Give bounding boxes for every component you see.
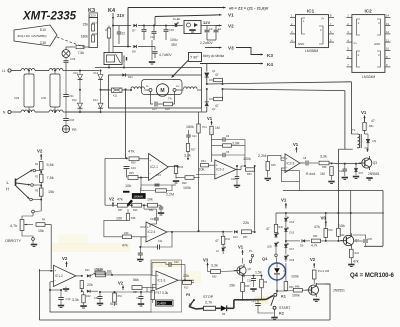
svg-text:2N5551: 2N5551 <box>368 172 380 176</box>
svg-text:M: M <box>160 88 164 94</box>
svg-text:R46: R46 <box>279 226 284 229</box>
svg-text:R60: R60 <box>212 276 217 279</box>
svg-text:P5: P5 <box>186 293 190 297</box>
svg-text:R37: R37 <box>118 209 123 212</box>
svg-text:STOP: STOP <box>203 295 214 299</box>
svg-text:D-LED: D-LED <box>173 18 180 21</box>
svg-text:180k: 180k <box>81 35 89 39</box>
svg-text:3,3k: 3,3k <box>211 264 218 268</box>
svg-text:D10: D10 <box>233 236 238 239</box>
svg-text:R29: R29 <box>124 232 129 235</box>
svg-text:LM358M: LM358M <box>305 49 318 53</box>
svg-text:LED: LED <box>267 246 272 249</box>
svg-text:JDQ1 DC 12V/W8BQ: JDQ1 DC 12V/W8BQ <box>17 34 47 38</box>
svg-text:C35: C35 <box>40 41 46 45</box>
svg-text:V: V <box>283 269 285 273</box>
svg-text:−: − <box>286 166 288 170</box>
svg-text:22k: 22k <box>87 283 93 287</box>
svg-text:2,2M: 2,2M <box>166 193 174 197</box>
svg-text:P17 3,3k: P17 3,3k <box>156 291 169 295</box>
svg-text:47k: 47k <box>128 149 134 154</box>
svg-text:21V: 21V <box>117 13 125 18</box>
svg-text:Q3: Q3 <box>373 161 377 165</box>
svg-text:100k: 100k <box>183 186 191 190</box>
svg-text:R30: R30 <box>131 162 136 165</box>
svg-text:K4: K4 <box>108 8 116 14</box>
svg-text:180k: 180k <box>186 125 194 129</box>
svg-text:14: 14 <box>386 14 390 18</box>
svg-text:4,7k: 4,7k <box>10 224 17 228</box>
svg-text:+: + <box>157 274 159 278</box>
svg-text:IC1-3: IC1-3 <box>158 278 166 282</box>
svg-text:R49: R49 <box>245 285 250 288</box>
svg-text:R13: R13 <box>184 287 189 290</box>
svg-text:D8: D8 <box>132 50 136 54</box>
svg-text:C19: C19 <box>66 297 71 301</box>
svg-text:3,3M: 3,3M <box>232 142 240 146</box>
svg-text:C25: C25 <box>368 238 373 241</box>
svg-text:510k: 510k <box>110 302 118 306</box>
svg-text:D21: D21 <box>85 269 90 272</box>
svg-text:R42: R42 <box>340 234 345 237</box>
svg-text:V2: V2 <box>37 149 43 154</box>
svg-text:11: 11 <box>386 38 389 42</box>
svg-text:R33: R33 <box>243 236 248 239</box>
svg-text:C30: C30 <box>41 96 47 100</box>
svg-text:V3: V3 <box>203 258 209 263</box>
svg-text:E1: E1 <box>218 27 222 31</box>
svg-text:22: 22 <box>122 32 126 36</box>
svg-text:15k: 15k <box>38 229 44 233</box>
svg-text:PE: PE <box>72 128 77 132</box>
svg-text:10k: 10k <box>125 184 131 188</box>
svg-text:3,3k: 3,3k <box>320 155 327 159</box>
svg-text:100k: 100k <box>291 275 299 279</box>
svg-text:1M: 1M <box>215 126 220 130</box>
svg-text:C21: C21 <box>192 135 197 138</box>
svg-text:510k: 510k <box>96 268 104 272</box>
svg-text:C16: C16 <box>339 170 344 173</box>
svg-text:5,6k: 5,6k <box>47 163 54 167</box>
svg-text:który do silnika: który do silnika <box>203 54 224 58</box>
svg-text:P11: P11 <box>203 126 208 129</box>
svg-text:C20: C20 <box>174 261 179 264</box>
svg-text:R26: R26 <box>165 107 170 111</box>
svg-text:L1: L1 <box>2 69 6 73</box>
svg-text:10k: 10k <box>199 168 205 172</box>
svg-text:+: + <box>54 269 56 273</box>
svg-text:D12: D12 <box>72 99 77 102</box>
svg-text:4V7: 4V7 <box>359 171 364 175</box>
svg-text:R18: R18 <box>92 32 97 36</box>
svg-text:10: 10 <box>386 47 390 51</box>
svg-text:V2: V2 <box>228 24 234 29</box>
svg-text:R51: R51 <box>118 295 123 298</box>
svg-text:D14: D14 <box>93 99 98 102</box>
svg-text:−: − <box>147 235 149 239</box>
svg-text:C+: C+ <box>354 41 358 45</box>
svg-text:22k: 22k <box>243 221 249 225</box>
svg-text:C9: C9 <box>209 27 213 31</box>
svg-text:35V: 35V <box>171 43 178 47</box>
svg-text:R20: R20 <box>133 209 138 212</box>
svg-text:R: R <box>106 29 108 32</box>
svg-text:C34: C34 <box>69 118 75 122</box>
svg-text:D16: D16 <box>290 221 295 224</box>
svg-text:13: 13 <box>386 22 390 26</box>
svg-text:GND: GND <box>374 42 380 46</box>
svg-text:C40: C40 <box>231 178 236 181</box>
svg-text:12: 12 <box>386 30 390 34</box>
svg-text:R19: R19 <box>107 270 112 273</box>
svg-text:22k: 22k <box>183 274 189 278</box>
svg-text:47: 47 <box>371 119 375 123</box>
svg-text:v0 = Z2 = (21 - 21,6)V: v0 = Z2 = (21 - 21,6)V <box>229 6 269 11</box>
svg-text:0,46V: 0,46V <box>158 302 167 306</box>
svg-text:7,5k: 7,5k <box>78 51 85 55</box>
svg-text:R58: R58 <box>322 166 327 169</box>
svg-text:K2: K2 <box>279 312 284 316</box>
svg-text:V1: V1 <box>207 116 213 121</box>
svg-text:C13: C13 <box>156 173 161 177</box>
svg-text:3,3k: 3,3k <box>184 154 191 158</box>
svg-text:R17: R17 <box>92 21 97 25</box>
svg-text:1,5k: 1,5k <box>255 271 262 275</box>
svg-text:K1: K1 <box>281 295 286 299</box>
svg-text:R53: R53 <box>247 173 252 176</box>
svg-text:R.dod.: R.dod. <box>306 172 316 176</box>
svg-text:A-: A- <box>146 84 149 88</box>
svg-text:D22: D22 <box>86 295 91 298</box>
svg-text:R44: R44 <box>226 238 231 241</box>
svg-text:V2: V2 <box>109 197 115 202</box>
svg-text:K11: K11 <box>113 95 118 98</box>
svg-text:47: 47 <box>215 73 219 77</box>
svg-text:100k: 100k <box>243 157 251 161</box>
svg-text:3,3k: 3,3k <box>72 298 79 302</box>
svg-text:−: − <box>54 279 56 283</box>
svg-text:R52: R52 <box>149 209 154 212</box>
svg-text:D9: D9 <box>300 244 304 248</box>
svg-text:D11: D11 <box>74 72 79 75</box>
svg-text:C11: C11 <box>158 240 163 243</box>
svg-text:D17: D17 <box>290 248 295 251</box>
svg-text:LM324M: LM324M <box>362 75 375 79</box>
svg-text:100k: 100k <box>292 294 300 298</box>
svg-text:OBROTY: OBROTY <box>5 239 22 243</box>
svg-text:12V: 12V <box>203 20 210 25</box>
svg-text:K3: K3 <box>267 53 273 58</box>
svg-text:R28: R28 <box>182 182 187 185</box>
svg-text:150: 150 <box>116 217 122 221</box>
svg-text:IC1: IC1 <box>307 9 315 14</box>
svg-text:R48: R48 <box>295 286 300 289</box>
svg-text:Q4 = MCR100-6: Q4 = MCR100-6 <box>350 273 395 279</box>
svg-text:A+: A+ <box>176 84 180 88</box>
svg-text:V3: V3 <box>228 46 234 51</box>
svg-text:R25: R25 <box>129 172 134 175</box>
svg-text:R31: R31 <box>369 125 374 128</box>
svg-text:V1: V1 <box>293 142 299 147</box>
svg-text:C16: C16 <box>150 35 155 39</box>
svg-text:D24: D24 <box>128 76 133 79</box>
svg-text:−: − <box>149 172 151 176</box>
svg-text:C24: C24 <box>131 166 136 170</box>
svg-text:47: 47 <box>266 227 270 231</box>
svg-text:T 90°: T 90° <box>190 56 199 60</box>
svg-text:START: START <box>279 306 291 310</box>
svg-text:D7: D7 <box>132 29 136 33</box>
svg-text:V1: V1 <box>281 198 287 203</box>
svg-text:47k: 47k <box>122 244 128 248</box>
svg-text:T1: T1 <box>352 128 356 132</box>
svg-text:IC2-2: IC2-2 <box>216 168 224 172</box>
svg-text:C27: C27 <box>152 107 157 111</box>
svg-text:R27: R27 <box>191 149 196 152</box>
svg-text:V2: V2 <box>310 257 316 262</box>
svg-text:100u: 100u <box>170 38 178 42</box>
svg-text:PL: PL <box>249 249 253 253</box>
svg-text:47k: 47k <box>117 198 123 202</box>
svg-text:−: − <box>216 172 218 176</box>
svg-text:2N5551: 2N5551 <box>333 289 345 293</box>
svg-text:47k: 47k <box>314 225 320 229</box>
svg-text:+: + <box>286 157 288 161</box>
svg-text:4,7u60V: 4,7u60V <box>159 53 172 57</box>
svg-text:GND: GND <box>298 42 304 46</box>
svg-text:15k: 15k <box>83 23 89 27</box>
svg-text:+: + <box>216 163 218 167</box>
svg-text:IC2: IC2 <box>365 9 373 14</box>
svg-text:47: 47 <box>215 239 219 243</box>
svg-text:R34: R34 <box>201 160 206 163</box>
svg-text:56k: 56k <box>133 278 139 282</box>
svg-text:R57: R57 <box>133 291 138 294</box>
svg-text:C23: C23 <box>150 218 155 221</box>
svg-text:V2: V2 <box>118 281 124 286</box>
svg-text:C29: C29 <box>14 96 20 100</box>
svg-text:V+: V+ <box>321 17 325 21</box>
svg-text:D18: D18 <box>290 259 295 262</box>
svg-text:+: + <box>147 226 149 230</box>
svg-text:V1: V1 <box>238 245 244 250</box>
svg-text:−: − <box>157 283 159 287</box>
svg-text:C38: C38 <box>94 297 99 300</box>
svg-text:H: H <box>6 187 9 192</box>
svg-text:V1: V1 <box>361 110 367 115</box>
svg-text:V2: V2 <box>62 256 68 261</box>
svg-text:2,2u50V: 2,2u50V <box>200 41 213 45</box>
svg-text:K4: K4 <box>267 62 273 67</box>
svg-text:R38: R38 <box>131 217 136 220</box>
svg-text:Pd 2,2M: Pd 2,2M <box>318 269 330 273</box>
svg-text:IC2-3: IC2-3 <box>287 161 295 165</box>
svg-text:P16: P16 <box>329 229 334 232</box>
svg-text:Q4: Q4 <box>262 256 268 261</box>
svg-text:(32V: (32V <box>90 14 96 18</box>
svg-text:Th: Th <box>168 97 172 101</box>
svg-text:V1: V1 <box>228 13 234 18</box>
svg-text:IC2-4: IC2-4 <box>148 230 156 234</box>
svg-text:15k: 15k <box>48 190 54 194</box>
svg-text:47: 47 <box>215 104 219 108</box>
svg-text:IC1-2: IC1-2 <box>55 274 63 278</box>
svg-text:47k: 47k <box>353 260 359 264</box>
svg-text:2,7k: 2,7k <box>205 301 212 305</box>
svg-text:C33: C33 <box>70 57 76 61</box>
svg-text:R24: R24 <box>355 252 360 255</box>
svg-text:15k: 15k <box>229 284 235 288</box>
svg-text:D13: D13 <box>94 72 99 75</box>
svg-text:D10: D10 <box>40 28 46 32</box>
svg-text:IC2-1: IC2-1 <box>150 165 158 169</box>
svg-text:C31: C31 <box>69 94 75 98</box>
svg-text:R35: R35 <box>179 166 184 169</box>
svg-text:1M: 1M <box>320 172 325 176</box>
svg-text:4,7k: 4,7k <box>311 244 318 248</box>
svg-text:15k: 15k <box>339 224 345 228</box>
svg-text:C30: C30 <box>247 280 252 283</box>
svg-text:10k: 10k <box>147 198 153 202</box>
svg-text:R45: R45 <box>271 164 276 167</box>
svg-text:180kW: 180kW <box>133 195 143 199</box>
svg-text:7,5k: 7,5k <box>47 176 54 180</box>
svg-text:D5: D5 <box>373 139 377 143</box>
svg-text:XMT-2335: XMT-2335 <box>22 11 77 23</box>
svg-text:Q7: Q7 <box>355 239 359 243</box>
svg-text:2,2M: 2,2M <box>258 154 266 158</box>
svg-text:R36: R36 <box>313 235 318 238</box>
svg-text:+: + <box>149 159 151 163</box>
svg-text:D15: D15 <box>290 232 295 235</box>
svg-text:C18: C18 <box>169 28 174 32</box>
